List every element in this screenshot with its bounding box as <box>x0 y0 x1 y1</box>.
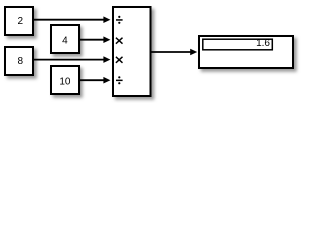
svg-text:4: 4 <box>62 36 68 47</box>
svg-text:8: 8 <box>18 56 24 67</box>
constant block C2 value 4 <box>51 25 79 53</box>
svg-text:10: 10 <box>59 77 71 88</box>
constant block C4 value 10 <box>51 66 79 94</box>
port 3 symbol multiply <box>116 57 123 63</box>
wire from C1 to U1 port 1 <box>33 16 110 23</box>
wire from C3 to U1 port 3 <box>33 56 110 63</box>
wire from C2 to U1 port 2 <box>79 36 110 43</box>
constant block C1 value 2 <box>5 7 33 35</box>
wire from C4 to U1 port 4 <box>79 77 110 84</box>
port 1 symbol divide <box>116 16 123 24</box>
port 2 symbol multiply <box>116 38 123 44</box>
divide block U1 <box>113 7 151 96</box>
port 4 symbol divide <box>116 76 123 84</box>
display block D1 <box>199 36 293 68</box>
svg-text:2: 2 <box>18 16 24 27</box>
wire from U1 output to D1 <box>151 49 198 55</box>
svg-text:1.6: 1.6 <box>256 38 270 49</box>
constant block C3 value 8 <box>5 47 33 75</box>
